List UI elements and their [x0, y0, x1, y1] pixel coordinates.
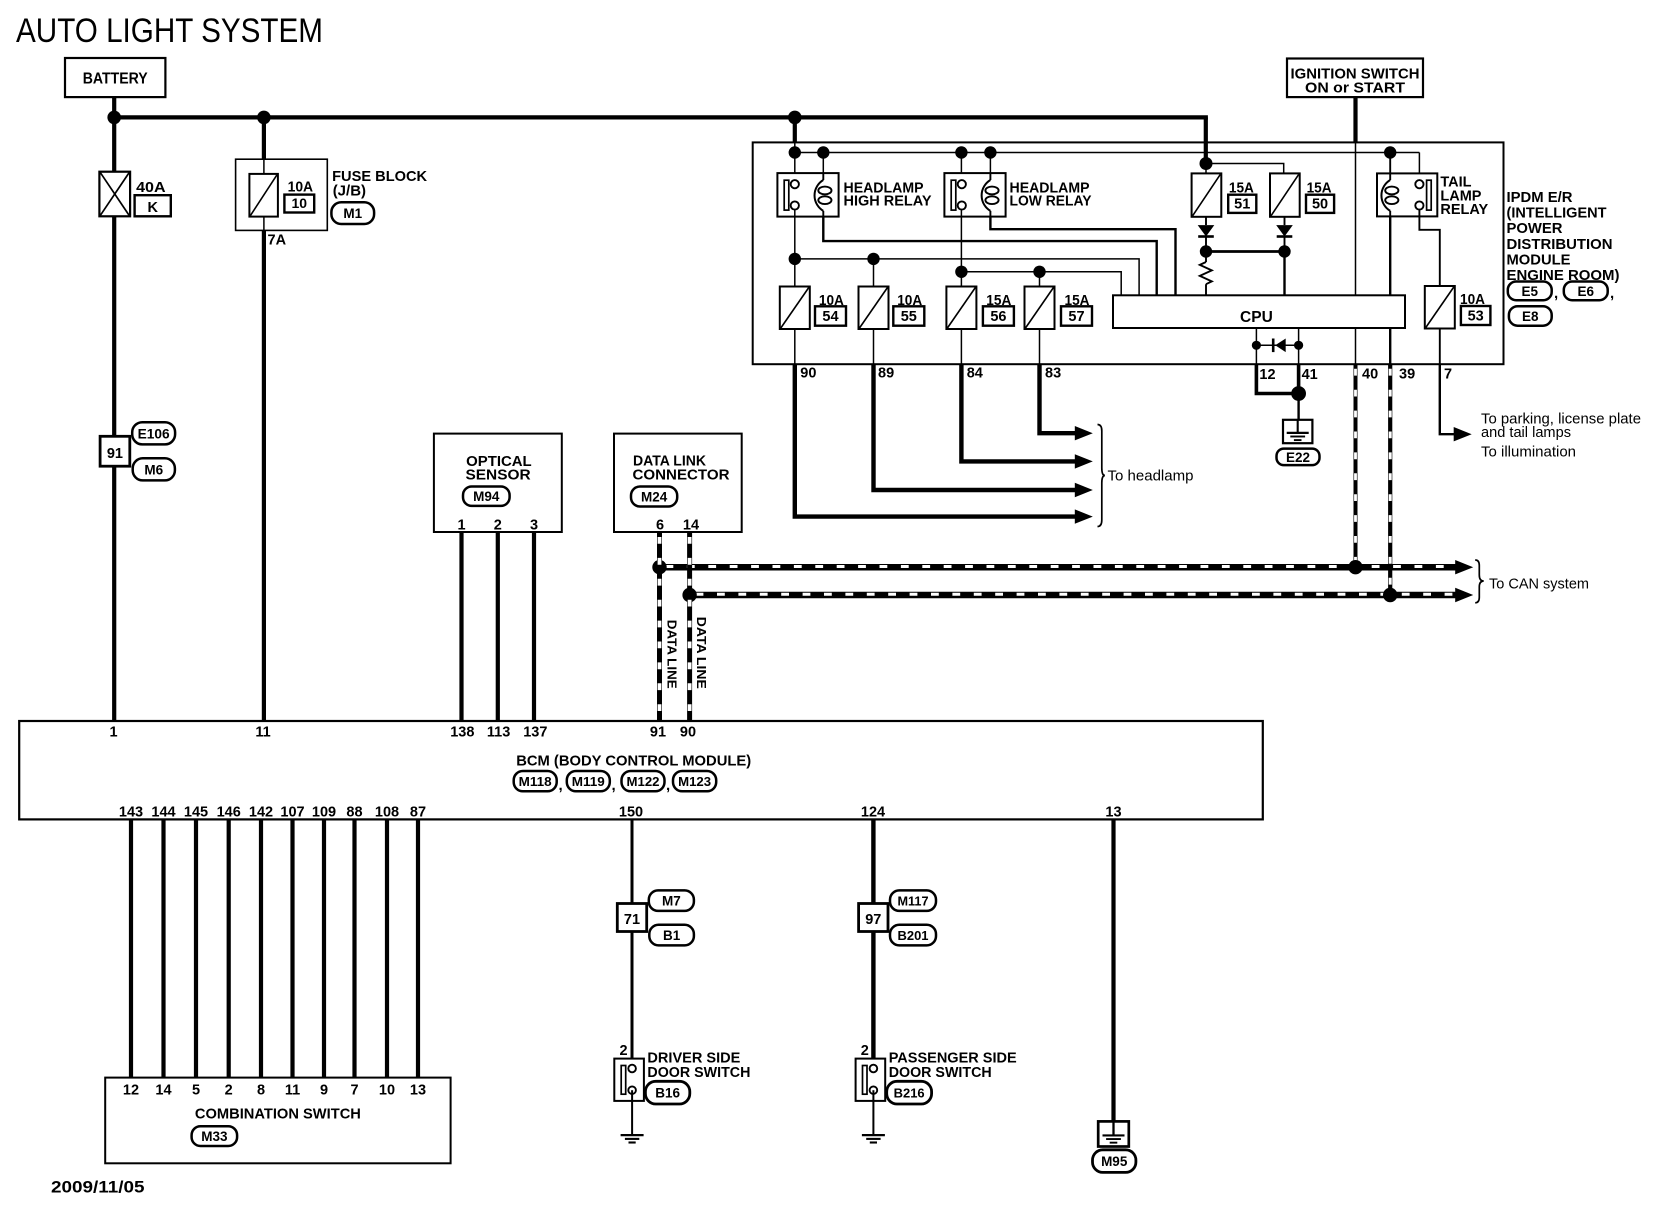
wire connector 97 to passenger door switch	[871, 932, 875, 1069]
svg-text:2: 2	[619, 1043, 627, 1059]
diode between pins 12 and 41	[1256, 344, 1298, 346]
headlamp high relay	[777, 173, 838, 217]
diode below fuse 51	[1205, 217, 1207, 225]
wire CAN line 1	[660, 564, 1460, 571]
wire BCM 150 to connector 71	[631, 819, 634, 903]
svg-text:146: 146	[217, 805, 241, 821]
combination switch box	[105, 1078, 450, 1164]
svg-text:3: 3	[530, 518, 538, 534]
svg-text:M117: M117	[898, 894, 929, 909]
svg-text:M123: M123	[678, 774, 711, 789]
fusible link 40A K	[99, 172, 130, 217]
svg-text:97: 97	[865, 912, 881, 928]
svg-text:B1: B1	[663, 928, 681, 943]
fuse 10A 54	[780, 287, 810, 330]
svg-text:83: 83	[1045, 366, 1061, 382]
wire BCM 13 to ground M95	[1111, 819, 1115, 1121]
fuse 15A 57	[1025, 287, 1055, 330]
svg-text:SENSOR: SENSOR	[466, 467, 532, 483]
svg-text:K: K	[147, 200, 158, 216]
svg-text:POWER: POWER	[1507, 220, 1563, 237]
node fuse 51/50 feed	[1200, 157, 1213, 170]
wire diode junction to CPU	[1283, 252, 1285, 296]
wire DLC pin 6 data line	[657, 532, 662, 721]
wire battery bus	[112, 97, 116, 117]
svg-text:B216: B216	[894, 1086, 925, 1101]
connector label M119	[567, 771, 610, 791]
svg-text:13: 13	[410, 1082, 426, 1098]
wire ignition switch to IPDM	[1353, 97, 1357, 143]
svg-text:9: 9	[320, 1082, 328, 1098]
connector label M6	[133, 458, 175, 480]
svg-text:91: 91	[650, 725, 666, 741]
wire high relay coil to CPU	[823, 217, 1156, 296]
svg-text:108: 108	[375, 805, 399, 821]
connector label B201	[890, 925, 936, 946]
wire to low relay pins	[960, 153, 962, 182]
svg-text:ON or START: ON or START	[1305, 80, 1405, 97]
svg-text:56: 56	[990, 309, 1006, 325]
ground E22	[1283, 420, 1312, 443]
svg-text:8: 8	[257, 1082, 265, 1098]
wire pins 12/41 to ground E22	[1256, 364, 1298, 394]
svg-text:87: 87	[410, 805, 426, 821]
svg-text:M94: M94	[473, 489, 500, 504]
node low relay contact feed	[955, 146, 967, 158]
ground passenger	[862, 1134, 885, 1136]
wire optical sensor pin 1 to BCM 138	[459, 532, 463, 721]
svg-text:7: 7	[1444, 367, 1452, 383]
svg-text:53: 53	[1468, 309, 1484, 325]
svg-text:,: ,	[666, 777, 670, 794]
node IPDM feed junction	[788, 111, 802, 125]
connector label B1	[649, 925, 694, 946]
wire driver door switch to ground	[631, 1090, 633, 1135]
svg-text:12: 12	[123, 1082, 139, 1098]
svg-text:,: ,	[612, 777, 616, 794]
wire fusible link to connector 91	[112, 216, 116, 437]
node CAN junction DLC 6	[652, 560, 666, 574]
svg-text:,: ,	[1610, 285, 1614, 302]
svg-text:COMBINATION SWITCH: COMBINATION SWITCH	[195, 1105, 361, 1122]
svg-text:B16: B16	[655, 1086, 680, 1101]
wires BCM to combination switch	[129, 819, 133, 1077]
svg-text:90: 90	[680, 725, 696, 741]
connector label M122	[622, 771, 665, 791]
wire pin 40 data line	[1354, 364, 1358, 567]
svg-text:109: 109	[312, 805, 336, 821]
svg-text:To headlamp: To headlamp	[1108, 468, 1194, 485]
wire ignition feed to CPU	[1355, 142, 1357, 295]
svg-text:(INTELLIGENT: (INTELLIGENT	[1507, 205, 1607, 222]
wire CPU to pin 40	[1355, 328, 1357, 364]
svg-text:138: 138	[450, 725, 474, 741]
wire connector 91 to BCM pin 1	[112, 466, 116, 721]
svg-text:2009/11/05: 2009/11/05	[51, 1178, 145, 1197]
BCM (body control module) box	[19, 721, 1263, 819]
svg-text:14: 14	[155, 1082, 171, 1098]
connector label M1	[331, 202, 374, 224]
fuse 15A 50	[1270, 173, 1300, 216]
node fuse 54 feed	[789, 253, 801, 265]
svg-text:M118: M118	[519, 774, 552, 789]
svg-text:71: 71	[624, 912, 640, 928]
wire fuse 54/55 bus to CPU	[794, 210, 796, 287]
wire low relay coil to CPU	[990, 217, 1175, 296]
fuse 10A 55	[859, 287, 889, 330]
wire connector 71 to driver door switch	[631, 932, 634, 1069]
wire pin 84 to headlamp	[961, 364, 1076, 462]
svg-text:,: ,	[1554, 285, 1558, 302]
svg-text:143: 143	[119, 805, 143, 821]
wire bus to fuse block	[262, 117, 266, 160]
node fuse 56 feed	[955, 266, 967, 278]
battery	[65, 58, 165, 97]
svg-text:6: 6	[656, 518, 664, 534]
svg-text:E6: E6	[1577, 284, 1594, 299]
connector label B216	[887, 1081, 932, 1104]
svg-text:B201: B201	[898, 928, 929, 943]
node fuse block junction	[257, 111, 271, 125]
optical sensor box	[434, 434, 562, 532]
diode below fuse 50	[1284, 217, 1286, 225]
connector label B16	[645, 1081, 689, 1104]
svg-text:M95: M95	[1101, 1154, 1128, 1169]
wire IPDM internal feed bus	[794, 142, 796, 152]
svg-text:M7: M7	[662, 894, 681, 909]
svg-text:1: 1	[457, 518, 465, 534]
wire CPU to pin 39	[1389, 328, 1391, 364]
fuse 15A 56	[946, 287, 976, 330]
wire battery to fusible link	[112, 117, 116, 173]
wire to high relay pins	[794, 153, 796, 182]
svg-text:DISTRIBUTION: DISTRIBUTION	[1507, 236, 1613, 253]
svg-text:40A: 40A	[136, 180, 166, 196]
svg-text:150: 150	[619, 805, 643, 821]
connector label E6	[1564, 282, 1608, 301]
svg-text:145: 145	[184, 805, 208, 821]
svg-text:11: 11	[285, 1082, 300, 1098]
svg-text:107: 107	[280, 805, 304, 821]
node high relay coil feed	[817, 146, 829, 158]
svg-text:RELAY: RELAY	[1440, 202, 1488, 218]
wire tail relay contact to fuse 53	[1419, 210, 1439, 286]
svg-text:M1: M1	[343, 206, 362, 221]
svg-text:90: 90	[800, 366, 816, 382]
connector label E8	[1509, 306, 1552, 326]
wire CPU to pin 12	[1255, 328, 1257, 364]
node battery junction	[107, 111, 121, 125]
tail lamp relay	[1377, 173, 1437, 216]
svg-text:142: 142	[249, 805, 273, 821]
fuse 10A 53	[1425, 286, 1455, 329]
headlamp low relay	[944, 173, 1005, 217]
ignition switch ON or START	[1287, 59, 1423, 98]
svg-text:E8: E8	[1522, 309, 1539, 324]
svg-text:12: 12	[1259, 367, 1275, 383]
svg-text:DATA LINE: DATA LINE	[664, 620, 679, 689]
svg-text:E5: E5	[1521, 284, 1538, 299]
connector label M123	[673, 771, 716, 791]
connector label E22	[1277, 449, 1320, 466]
svg-text:91: 91	[107, 446, 123, 462]
svg-text:14: 14	[683, 518, 699, 534]
svg-text:2: 2	[225, 1082, 233, 1098]
svg-text:88: 88	[346, 805, 362, 821]
CPU box	[1113, 295, 1405, 328]
connector label M95	[1093, 1150, 1136, 1173]
wire fuse block to BCM pin 11	[262, 230, 266, 721]
svg-text:(J/B): (J/B)	[333, 182, 366, 199]
connector label M118	[514, 771, 557, 791]
svg-text:41: 41	[1302, 367, 1318, 383]
wire bus feed to fuses 51/50	[1204, 117, 1208, 163]
wire passenger door switch to ground	[872, 1090, 874, 1135]
svg-text:CPU: CPU	[1240, 309, 1273, 326]
connector 91 (E106/M6)	[100, 436, 130, 466]
svg-text:M6: M6	[144, 462, 163, 477]
wire optical sensor pin 3 to BCM 137	[532, 532, 536, 721]
svg-text:1: 1	[109, 725, 117, 741]
wire pin 90 to headlamp	[795, 364, 1076, 517]
connector label E106	[132, 422, 175, 444]
svg-text:55: 55	[901, 309, 917, 325]
connector label M94	[463, 487, 510, 506]
svg-text:AUTO LIGHT SYSTEM: AUTO LIGHT SYSTEM	[16, 12, 323, 50]
svg-text:To illumination: To illumination	[1481, 444, 1576, 461]
svg-text:E106: E106	[138, 426, 170, 441]
svg-text:M33: M33	[201, 1129, 228, 1144]
svg-text:M119: M119	[572, 774, 605, 789]
node CAN junction DLC 14	[682, 588, 696, 602]
node fuse 57 feed	[1033, 266, 1045, 278]
svg-text:BCM (BODY CONTROL MODULE): BCM (BODY CONTROL MODULE)	[516, 753, 751, 770]
svg-text:DOOR SWITCH: DOOR SWITCH	[889, 1065, 992, 1081]
wire CPU to pin 41	[1298, 328, 1300, 364]
wire BCM 124 to connector 97	[871, 819, 875, 903]
svg-text:E22: E22	[1286, 450, 1310, 465]
node low relay coil feed	[984, 146, 996, 158]
connector label M7	[649, 890, 694, 911]
svg-text:51: 51	[1234, 196, 1250, 212]
wire fuse 56/57 bus to CPU	[960, 210, 962, 287]
connector 97 (M117/B201)	[859, 904, 888, 932]
node diode junction left	[1200, 245, 1212, 257]
svg-text:M24: M24	[641, 490, 668, 505]
svg-text:137: 137	[523, 725, 547, 741]
node fuse 55 feed	[867, 253, 879, 265]
svg-text:DATA LINE: DATA LINE	[694, 617, 709, 689]
wire tail relay coil to CPU	[1389, 216, 1391, 295]
ground M95	[1098, 1121, 1129, 1146]
svg-text:M122: M122	[627, 774, 660, 789]
svg-text:LOW RELAY: LOW RELAY	[1010, 194, 1092, 210]
svg-text:,: ,	[559, 777, 563, 794]
svg-text:7: 7	[350, 1082, 358, 1098]
svg-text:10: 10	[379, 1082, 395, 1098]
svg-text:89: 89	[878, 366, 894, 382]
connector label M33	[192, 1126, 238, 1146]
svg-text:40: 40	[1362, 367, 1378, 383]
fuse 10A 10	[263, 159, 265, 174]
wire CAN line 2	[690, 592, 1459, 599]
svg-text:11: 11	[255, 725, 270, 741]
svg-text:124: 124	[861, 805, 885, 821]
wire pin 7 to parking lamps	[1440, 364, 1455, 434]
svg-text:39: 39	[1399, 367, 1415, 383]
IPDM E/R box	[753, 142, 1504, 364]
wire pin 83 to headlamp	[1040, 364, 1077, 433]
svg-text:2: 2	[494, 518, 502, 534]
svg-text:50: 50	[1312, 196, 1328, 212]
node diode junction right	[1278, 245, 1290, 257]
wire to tail relay pins	[1389, 153, 1391, 181]
svg-text:5: 5	[192, 1082, 200, 1098]
svg-text:BATTERY: BATTERY	[83, 71, 149, 88]
connector 71 (M7/B1)	[617, 904, 646, 932]
node CAN junction pin 40	[1348, 560, 1362, 574]
svg-text:MODULE: MODULE	[1507, 251, 1571, 268]
connector label M117	[890, 890, 936, 911]
wire pin 39 data line	[1388, 364, 1392, 595]
svg-text:and tail lamps: and tail lamps	[1481, 424, 1571, 441]
connector label E5	[1508, 282, 1552, 301]
svg-text:13: 13	[1105, 805, 1121, 821]
svg-text:HIGH RELAY: HIGH RELAY	[844, 194, 932, 210]
node high relay contact feed	[789, 146, 801, 158]
svg-text:144: 144	[151, 805, 175, 821]
node tail relay coil feed	[1384, 146, 1396, 158]
fuse 15A 51	[1192, 173, 1222, 216]
wire DLC pin 14 data line	[687, 532, 692, 721]
svg-text:IPDM E/R: IPDM E/R	[1507, 189, 1573, 206]
svg-text:10: 10	[292, 195, 308, 211]
wire pin 89 to headlamp	[874, 364, 1077, 490]
svg-text:54: 54	[822, 309, 838, 325]
svg-text:To CAN system: To CAN system	[1489, 577, 1589, 593]
node CAN junction pin 39	[1383, 588, 1397, 602]
resistor to CPU	[1205, 252, 1207, 263]
svg-text:2: 2	[861, 1043, 869, 1059]
wire diode junction	[1206, 250, 1285, 253]
data link connector box	[614, 434, 742, 532]
svg-text:113: 113	[487, 725, 510, 741]
connector label M24	[631, 487, 677, 507]
ground driver	[621, 1134, 644, 1136]
svg-text:DOOR SWITCH: DOOR SWITCH	[647, 1065, 750, 1081]
svg-text:10A: 10A	[288, 180, 314, 196]
wire bus to IPDM	[793, 117, 797, 142]
svg-text:7A: 7A	[268, 232, 287, 248]
brace To CAN system	[1475, 560, 1484, 603]
svg-text:84: 84	[967, 366, 983, 382]
fuse block (J/B) box	[236, 159, 328, 230]
brace to headlamp	[1098, 425, 1105, 527]
svg-text:57: 57	[1068, 309, 1084, 325]
wire optical sensor pin 2 to BCM 113	[496, 532, 500, 721]
wire fuse 53 to pin 7	[1439, 329, 1441, 364]
svg-text:CONNECTOR: CONNECTOR	[633, 467, 731, 483]
